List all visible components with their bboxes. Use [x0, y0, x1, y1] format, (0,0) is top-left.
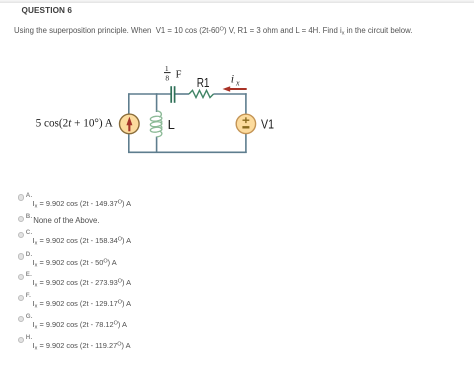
option H — [18, 337, 25, 344]
svg-text:1: 1 — [165, 64, 169, 73]
svg-text:i: i — [231, 72, 234, 86]
svg-text:x: x — [235, 79, 240, 88]
wire: left vertical — [128, 93, 130, 153]
question text — [14, 26, 412, 35]
resistor R1 zigzag — [189, 90, 214, 97]
inductor L coil — [157, 111, 162, 117]
wire: top wire right of capacitor — [175, 93, 189, 95]
wire: middle branch vertical — [156, 93, 158, 112]
option C — [18, 232, 25, 239]
option D — [18, 253, 25, 260]
current source I1 circle — [120, 114, 140, 134]
current ix arrow — [223, 86, 247, 92]
top gray band — [0, 0, 474, 3]
current source arrow (up) — [126, 117, 132, 132]
capacitor value label 1/8 F — [164, 64, 182, 83]
header QUESTION 6 — [22, 6, 73, 15]
wire: bottom wire — [128, 151, 247, 153]
voltage source V1 circle — [236, 114, 255, 133]
svg-text:5 cos(2t + 10°) A: 5 cos(2t + 10°) A — [36, 118, 113, 130]
wire: right vertical — [245, 93, 247, 153]
svg-text:L: L — [168, 117, 175, 132]
svg-text:V1: V1 — [261, 116, 274, 131]
option E — [18, 274, 25, 281]
svg-text:F: F — [176, 69, 182, 80]
capacitor C (1/8 F) plates — [171, 86, 174, 103]
option F — [18, 295, 25, 302]
voltage source polarity marks — [242, 117, 249, 127]
option G — [18, 316, 25, 323]
option A — [18, 194, 25, 201]
svg-text:8: 8 — [165, 74, 169, 83]
option B — [18, 216, 25, 223]
wire: top wire right of resistor — [214, 93, 247, 95]
svg-text:R1: R1 — [197, 75, 210, 90]
wire: top wire — [129, 93, 171, 95]
